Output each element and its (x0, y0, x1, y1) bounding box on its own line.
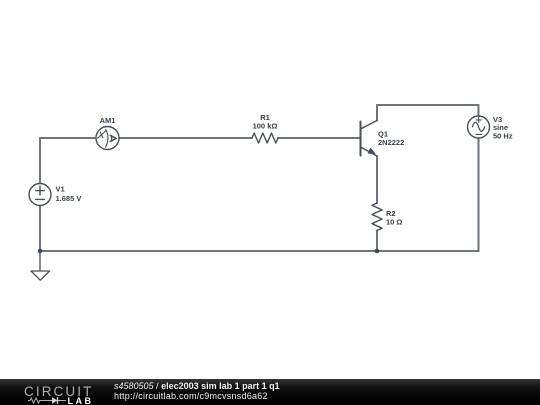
label V1 name (56, 185, 65, 194)
svg-text:V1: V1 (56, 185, 65, 194)
svg-text:1.685 V: 1.685 V (56, 194, 82, 203)
label R2 value (386, 218, 402, 227)
junction node at V1/ground (38, 249, 43, 254)
svg-text:100 kΩ: 100 kΩ (253, 122, 278, 131)
wire Q1 collector to top rail (376, 105, 378, 121)
junction node at R2 bottom (375, 249, 380, 254)
transistor Q1 (361, 121, 378, 157)
label R2 name (386, 209, 396, 218)
svg-text:LAB: LAB (68, 396, 94, 405)
wire V3 to bottom rail (478, 138, 480, 251)
wire V1 bottom to ground junction (39, 206, 41, 252)
resistor R2 (372, 203, 382, 231)
wire Q1 emitter to R2 (376, 156, 378, 203)
label AM1 name (100, 116, 116, 125)
label Q1 name (378, 129, 388, 138)
svg-text:10 Ω: 10 Ω (386, 218, 402, 227)
ground (31, 251, 50, 280)
voltage source V3 (468, 116, 490, 138)
svg-text:AM1: AM1 (100, 116, 116, 125)
label V3 name (493, 115, 502, 124)
wire R1 to Q1 base (278, 137, 360, 139)
wire top-left horizontal (corner to AM1) (40, 137, 96, 139)
voltage source V1 (29, 184, 51, 206)
label V3 frequency (493, 131, 513, 140)
ammeter AM1 (96, 127, 119, 150)
svg-text:50 Hz: 50 Hz (493, 131, 513, 140)
resistor R1 (252, 133, 278, 143)
label Q1 value (378, 138, 404, 147)
wire top-left vertical (V1 top to corner) (39, 138, 41, 184)
wire top rail to V3 (377, 105, 479, 116)
label R1 name (260, 113, 270, 122)
footer bar (0, 379, 540, 405)
label V1 value (56, 194, 82, 203)
wire R2 to bottom rail (376, 231, 378, 252)
label R1 value (253, 122, 278, 131)
svg-text:2N2222: 2N2222 (378, 138, 404, 147)
label V3 type (493, 123, 508, 132)
wire bottom rail (40, 250, 479, 252)
svg-text:R2: R2 (386, 209, 396, 218)
wire AM1 to R1 (119, 137, 252, 139)
CircuitLab logo (24, 379, 104, 405)
footer title text (114, 382, 280, 401)
svg-text:Q1: Q1 (378, 129, 388, 138)
